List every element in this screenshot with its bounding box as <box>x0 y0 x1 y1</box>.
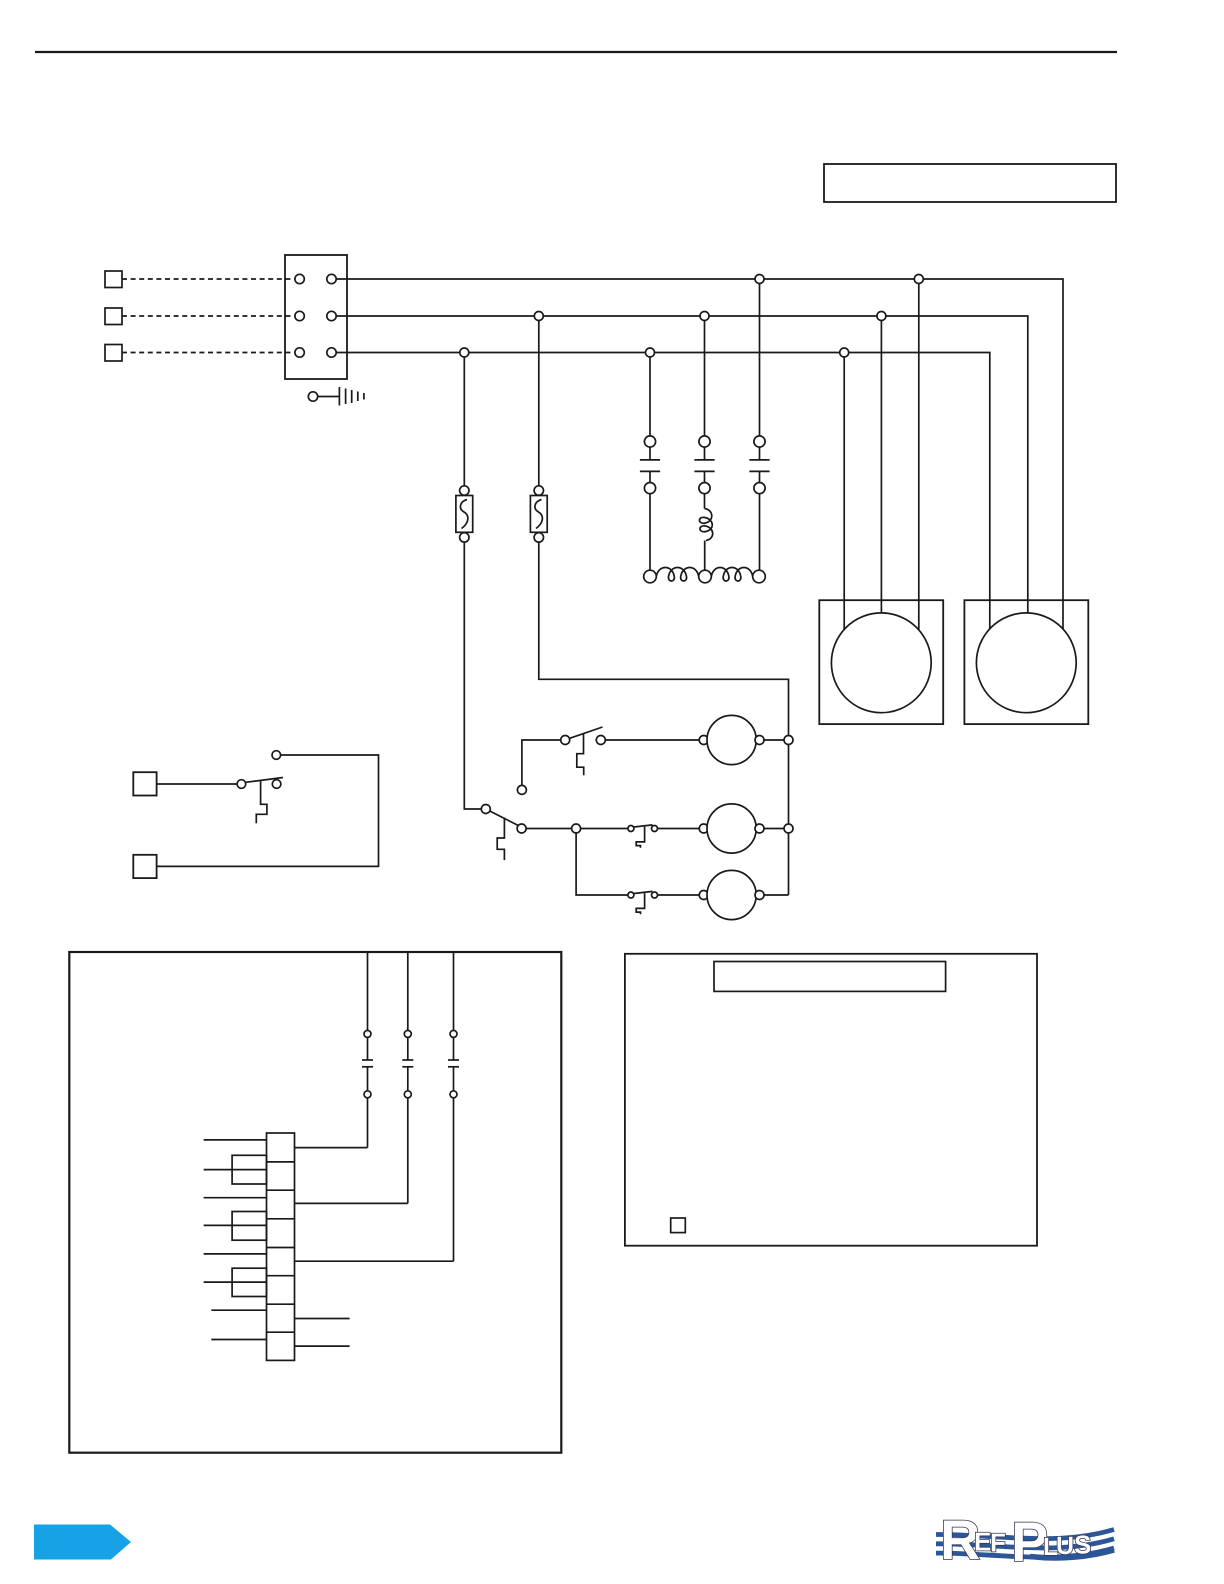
node motor M1 tap phase 2 <box>877 312 886 321</box>
TB1 pin 2R <box>327 311 336 320</box>
fan1 pressure switch <box>561 727 606 775</box>
thermostat switch TH1 <box>237 751 283 824</box>
wire strip input 8 <box>211 1339 266 1341</box>
fan3 thermal switch <box>628 891 658 914</box>
motor M1 <box>831 613 931 713</box>
wire bus phase 1 <box>336 279 1063 629</box>
wire bus phase 3 <box>336 353 990 630</box>
node motor M1 tap phase 1 <box>914 275 923 284</box>
supply terminal square L3 <box>105 345 122 362</box>
control panel box <box>69 952 561 1453</box>
contactor pole K1a <box>640 436 660 494</box>
RefPlus logo <box>936 1520 1114 1561</box>
auxiliary contact line 2 <box>402 952 413 1203</box>
wire motor M1 drop phase 1 <box>918 279 920 630</box>
wire fuse F2 drop <box>538 316 540 486</box>
wire strip input 6 <box>204 1281 267 1283</box>
node contactor tap phase 3 <box>646 348 655 357</box>
node fuse F1 tap <box>460 348 469 357</box>
wire strip input 5 <box>204 1253 267 1255</box>
wire FM2 to bus <box>764 828 784 830</box>
wire main switch to fan2 <box>526 828 572 830</box>
TB1 pin 3L <box>295 348 304 357</box>
contactor pole K1b <box>694 436 714 494</box>
supply terminal square L1 <box>105 271 122 288</box>
fan motor FM3 <box>699 870 764 919</box>
wire contactor pole drop phase 3 <box>649 353 651 436</box>
wire contactor pole drop phase 1 <box>759 279 761 436</box>
terminal block TB1 <box>285 255 347 379</box>
fuse F1 <box>456 486 473 542</box>
node fan2 branch <box>572 824 581 833</box>
wire motor M1 drop phase 2 <box>880 316 882 614</box>
node bus fan2 <box>784 824 793 833</box>
overload heater coil vertical <box>699 494 712 571</box>
wire FM1 to bus <box>764 739 784 741</box>
wire fan2 switch to motor <box>658 828 700 830</box>
terminal strip <box>267 1133 295 1360</box>
fan motor FM2 <box>699 804 764 853</box>
wire K1c to overload <box>759 494 761 571</box>
ground <box>308 387 364 406</box>
wire K1a to overload <box>649 494 651 571</box>
fan2 thermal switch <box>628 825 658 848</box>
wire square A to thermostat <box>157 783 237 785</box>
wire contact2 to strip <box>295 1202 408 1204</box>
TB1 pin 3R <box>327 348 336 357</box>
control terminal square B <box>133 855 156 878</box>
wire fuse F2 to fan bus <box>539 542 789 895</box>
wire FM3 to bus <box>764 894 789 896</box>
wire thermostat to square B <box>157 755 379 866</box>
wire strip stub 7 <box>295 1318 350 1320</box>
legend box <box>625 954 1037 1246</box>
main switch SW1 <box>481 805 526 861</box>
jumper box 1 <box>232 1155 266 1184</box>
wire strip input 2 <box>204 1169 267 1171</box>
fuse F2 <box>530 486 547 542</box>
node motor M1 tap phase 3 <box>840 348 849 357</box>
overload assembly OL <box>644 568 766 583</box>
wire strip input 4 <box>204 1224 267 1226</box>
node bus fan1 <box>784 736 793 745</box>
jumper box 2 <box>232 1212 266 1241</box>
fan motor FM1 <box>699 715 764 764</box>
motor M2 box <box>964 600 1088 724</box>
wire fan3 switch to motor <box>658 894 700 896</box>
auxiliary contact line 1 <box>362 952 373 1148</box>
TB1 pin 1L <box>295 274 304 283</box>
fan1 open terminal <box>517 740 560 794</box>
control terminal square A <box>133 772 156 795</box>
wire strip stub 8 <box>295 1345 350 1347</box>
node contactor tap phase 2 <box>700 312 709 321</box>
node fuse F2 tap <box>534 312 543 321</box>
wire bus phase 2 <box>336 316 1028 614</box>
contactor pole K1c <box>749 436 769 494</box>
wire fuse F1 drop <box>463 353 465 486</box>
title box (empty label box) <box>824 164 1116 202</box>
legend sample square <box>671 1218 686 1233</box>
dashed wire L2 to terminal block <box>122 315 295 317</box>
jumper box 3 <box>232 1268 266 1296</box>
wire node to fan2 switch <box>581 828 628 830</box>
TB1 pin 2L <box>295 311 304 320</box>
motor M1 box <box>819 600 943 724</box>
auxiliary contact line 3 <box>448 952 459 1261</box>
TB1 pin 1R <box>327 274 336 283</box>
wire contact3 to strip <box>295 1260 454 1262</box>
wire fuse F1 to main switch <box>464 542 481 809</box>
wire fan1 switch to motor <box>605 739 699 741</box>
motor M2 <box>976 613 1076 713</box>
wire fan2 node down to fan3 <box>576 833 628 895</box>
wire strip input 7 <box>211 1309 266 1311</box>
legend title box <box>714 962 946 992</box>
node contactor tap phase 1 <box>755 275 764 284</box>
wire contact1 to strip <box>295 1147 368 1149</box>
wire motor M1 drop phase 3 <box>843 353 845 630</box>
top horizontal rule <box>35 51 1117 53</box>
wire strip input 1 <box>204 1139 267 1141</box>
footer blue tab <box>34 1525 131 1560</box>
dashed wire L1 to terminal block <box>122 278 295 280</box>
wire strip input 3 <box>204 1197 267 1199</box>
dashed wire L3 to terminal block <box>122 352 295 354</box>
supply terminal square L2 <box>105 308 122 325</box>
wire contactor pole drop phase 2 <box>704 316 706 436</box>
